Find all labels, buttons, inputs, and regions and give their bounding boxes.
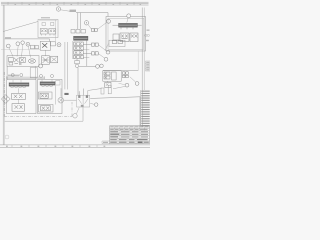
leader L1	[9, 48, 13, 57]
check pair A	[92, 43, 99, 46]
wire into solenoid box	[3, 22, 38, 32]
parts list column border	[140, 90, 142, 126]
balloon valve	[94, 103, 98, 107]
manifold content r1	[104, 72, 110, 75]
balloon L3	[21, 41, 25, 45]
balloon R1	[125, 83, 129, 87]
comp below box	[105, 82, 111, 87]
border right	[141, 8, 143, 128]
wire pair down to manifold	[78, 13, 81, 29]
enclosure top-right outer	[106, 17, 146, 52]
revision mini table text	[146, 62, 149, 71]
revision note 2	[146, 40, 149, 41]
valve row right: left element	[113, 34, 119, 40]
wire row C short	[83, 50, 89, 58]
balloon L1	[6, 44, 10, 48]
revision mini table	[145, 61, 150, 71]
bar stubs	[113, 24, 142, 26]
wire small vertical	[55, 20, 57, 42]
revision note 1	[147, 30, 150, 31]
manifold content col	[112, 72, 117, 80]
solenoid valve 2	[49, 29, 56, 36]
wire from B2 area	[88, 25, 92, 30]
leader to B6	[98, 54, 104, 58]
connector A	[18, 88, 20, 103]
balloon B1 top left	[56, 7, 60, 11]
leader B4	[127, 18, 128, 23]
filter diamond	[1, 95, 10, 104]
valve box A2	[12, 104, 24, 112]
return line bottom	[5, 107, 83, 121]
leader to B5	[98, 45, 106, 51]
solenoid coils	[42, 23, 54, 26]
balloon R2	[135, 82, 139, 86]
zone numbers top	[15, 3, 142, 6]
balloon unit1 a	[11, 74, 14, 77]
balloon L6	[39, 64, 43, 68]
line above box	[103, 69, 138, 71]
stack drain box	[75, 61, 80, 64]
cylinder line pair	[7, 77, 45, 78]
balloon unit2 b	[51, 75, 54, 78]
note above boxA	[8, 75, 19, 77]
stack drain wire	[76, 59, 78, 61]
tall rect cylinder	[30, 68, 37, 78]
faint boundary line	[1, 49, 40, 51]
valve top port lines	[79, 89, 83, 96]
X-valve box left	[40, 41, 50, 50]
small rect b	[101, 88, 104, 94]
verticals to lower section	[61, 42, 68, 97]
wire drop	[49, 39, 51, 42]
note text top	[70, 10, 77, 12]
wire row A	[83, 44, 91, 46]
inner bottom box	[109, 40, 125, 46]
valve stack r4	[74, 55, 84, 59]
pump group rects	[9, 57, 26, 65]
circle end	[96, 65, 100, 69]
wire stack right vertical	[86, 41, 88, 67]
comp pair right1	[123, 72, 129, 75]
center manifold check row	[71, 30, 86, 34]
port ticks bars	[13, 80, 52, 83]
dashdot boundary bottom	[4, 115, 72, 117]
border right inner	[143, 8, 145, 91]
revision mark circles	[145, 34, 150, 36]
leader to balloon B3	[97, 23, 106, 30]
wire enclosure to balloon B5	[105, 44, 109, 51]
valve box A1	[12, 93, 26, 99]
valve right with X	[130, 33, 138, 42]
cylinder ticks	[7, 76, 45, 79]
balloon B3	[107, 19, 111, 23]
comp row small	[30, 45, 38, 49]
vertical connector unit2	[54, 85, 56, 104]
wire main left	[5, 38, 50, 40]
wire to circle	[79, 65, 96, 67]
leader valve	[90, 103, 94, 104]
small rect a	[108, 85, 111, 94]
power unit box A	[7, 80, 36, 114]
title block frame	[110, 126, 150, 144]
connector below	[107, 81, 109, 82]
wire box1 to boxA left	[6, 66, 8, 79]
leader balloon boundary	[76, 108, 79, 114]
balloon unit2 a	[40, 75, 43, 78]
valve top port diagonal	[88, 89, 102, 96]
wire row B	[83, 52, 91, 54]
manifold bar top-right	[119, 23, 138, 27]
balloon L5	[57, 43, 61, 47]
power unit box 2	[38, 80, 63, 114]
diag leader 1	[113, 86, 125, 88]
center manifold dark bar	[74, 36, 89, 40]
diag leader 2	[130, 77, 136, 82]
title block text streaks	[110, 126, 149, 143]
border left inner	[4, 5, 6, 145]
border top zone strip	[1, 2, 149, 5]
parts list text rows	[141, 91, 149, 127]
balloon L2	[16, 42, 20, 46]
valve stack r2	[74, 46, 84, 50]
check valve pair top	[92, 29, 98, 32]
leader from B1	[61, 10, 70, 11]
scallops under bar	[11, 86, 26, 88]
wire top long	[76, 13, 108, 17]
border bottom zone strip	[0, 145, 150, 148]
solenoid valve box inner top line	[39, 20, 57, 22]
small comp in box	[112, 41, 117, 44]
big directional valve	[77, 95, 90, 107]
vertical right short	[137, 51, 139, 71]
balloon L4	[26, 42, 30, 46]
manifold bar A	[9, 83, 29, 86]
arrow marks	[64, 93, 68, 95]
manifold bar unit2	[40, 82, 55, 85]
zone numbers bottom	[6, 146, 105, 147]
valve center with X	[120, 33, 129, 42]
sheet cell left of title	[102, 141, 110, 144]
pump motor oval	[28, 59, 35, 63]
manifold content r2	[104, 76, 110, 79]
balloon B2	[84, 21, 88, 25]
valve stack r3	[74, 51, 84, 55]
balloon B6	[104, 57, 108, 61]
check pair B	[92, 52, 99, 55]
balloon unit1 b	[20, 74, 23, 77]
title block row lines	[110, 128, 150, 141]
faint label above solenoid valves	[41, 17, 50, 18]
balloon M1	[100, 64, 104, 68]
leader L3	[22, 44, 23, 56]
pump box 1	[7, 56, 39, 67]
balloon B5	[106, 50, 110, 54]
valve D1	[41, 106, 51, 111]
small box	[50, 42, 55, 46]
balloon boundary	[73, 114, 77, 118]
border left	[2, 5, 4, 145]
leader L2	[17, 46, 18, 57]
main line mid	[64, 99, 77, 101]
registration circle bottom left	[5, 135, 9, 139]
solenoid valve 1	[40, 29, 47, 36]
valve out line right	[90, 97, 140, 127]
manifold box right	[103, 71, 121, 81]
dashdot boundary vertical	[3, 72, 5, 116]
valve box C	[39, 92, 53, 99]
sheet cell text	[103, 142, 108, 143]
crossed circle pump	[58, 97, 64, 103]
enclosure top-right inner	[108, 18, 144, 49]
connector valve to cluster	[45, 50, 47, 56]
valve cluster mid2	[51, 56, 58, 63]
hatch cluster mid	[42, 56, 50, 64]
scallops unit2	[42, 85, 53, 87]
stack left rail	[72, 41, 74, 59]
title block col dividers r1	[114, 126, 144, 131]
valve stack r1	[74, 42, 84, 46]
leader L4	[28, 46, 30, 57]
diag leader 1b	[119, 83, 126, 85]
stack drain circle	[75, 64, 78, 67]
vertical wire x78	[77, 68, 79, 96]
relief comp unit2	[56, 81, 60, 85]
note text left	[5, 37, 11, 39]
balloon B4 on enclosure	[127, 14, 131, 18]
valve C1	[40, 93, 48, 98]
ticks below bar	[121, 27, 133, 29]
title block col dividers bottom	[118, 138, 143, 143]
solenoid valve box top-left	[38, 20, 58, 38]
title block col dividers mid	[120, 130, 140, 138]
wire box1 to boxA right	[35, 66, 37, 79]
comp pair right2	[123, 75, 129, 77]
dashdot boundary right	[71, 102, 73, 116]
valve box D	[39, 105, 54, 113]
